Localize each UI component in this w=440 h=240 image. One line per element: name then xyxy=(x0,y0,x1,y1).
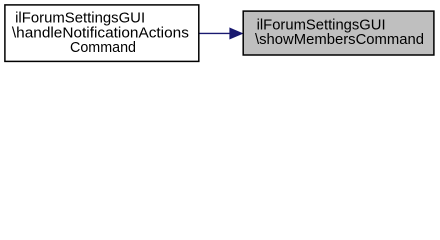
svg-text:ilForumSettingsGUI: ilForumSettingsGUI xyxy=(257,17,386,33)
svg-text:Command: Command xyxy=(70,40,136,56)
svg-text:\showMembersCommand: \showMembersCommand xyxy=(255,32,424,48)
svg-text:ilForumSettingsGUI: ilForumSettingsGUI xyxy=(15,11,145,27)
